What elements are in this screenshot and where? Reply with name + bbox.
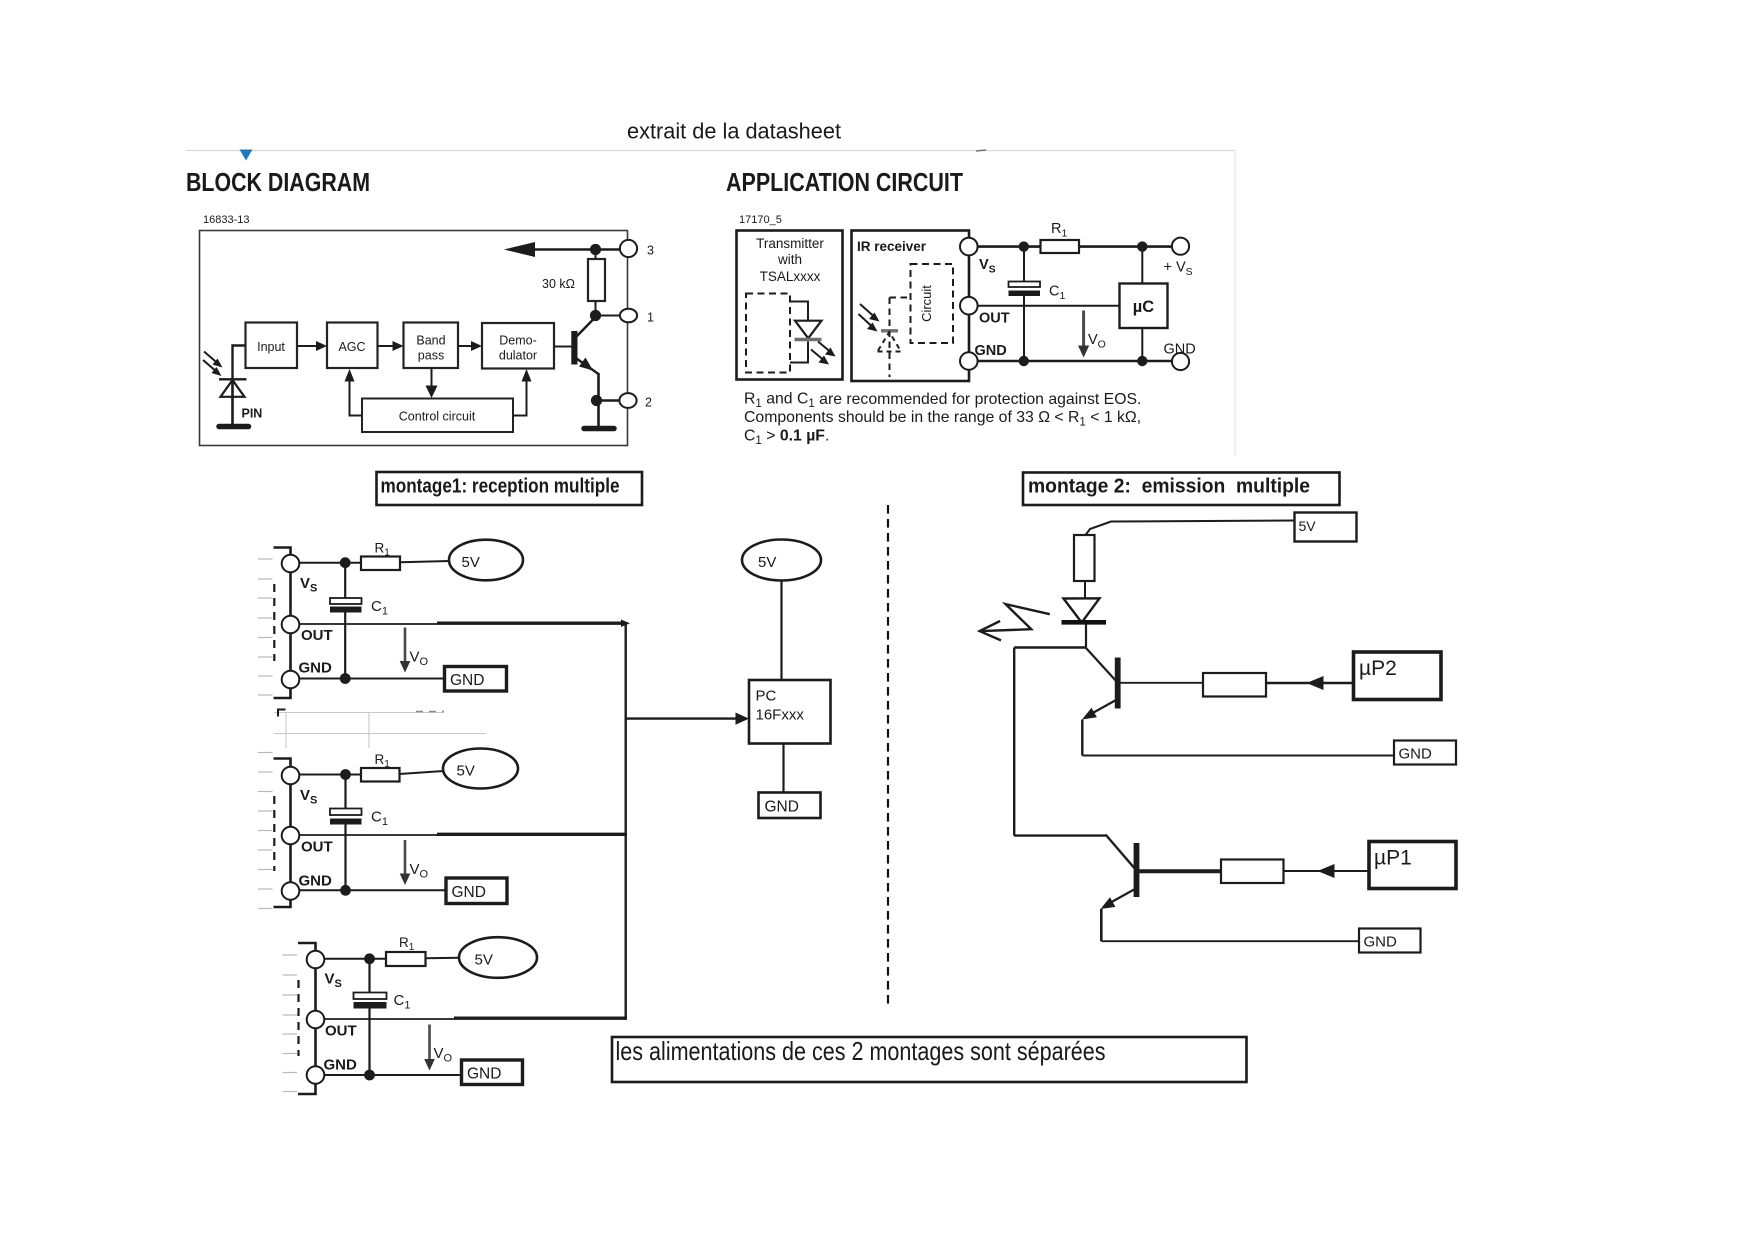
uP1 box [1369,842,1456,889]
C1 capacitor top plate [1009,282,1041,288]
module2 Vo arrow [404,840,407,876]
GND terminal right [1172,353,1189,370]
transmitter dashed internal box [746,294,790,373]
svg-text:Band: Band [416,334,445,348]
pin 1 terminal [620,309,637,323]
Q2 collector [1086,648,1117,682]
receiver dashed photodiode link [890,297,911,299]
ground under photodiode [219,424,249,430]
svg-text:montage 2: emission multiple: montage 2: emission multiple [1028,476,1310,498]
wire 5V to resistor [1086,521,1295,536]
svg-text:IR receiver: IR receiver [857,239,927,254]
module3 scan ruler ticks [283,955,298,1092]
control to demodulator wire [513,378,527,416]
scan residue corner mark [278,710,286,717]
light arrow 1 into photodiode [204,352,218,364]
module3 OUT wire thin [324,1018,455,1020]
wire LED to collector node [1085,625,1087,648]
receiver pin Vs [960,238,978,256]
pin 2 terminal [619,393,636,408]
wire PC to GND [782,744,784,793]
module2 wire R1 to 5V [400,771,444,774]
5V box (montage2) [1295,513,1357,542]
wire resistor top to node [595,250,597,260]
zigzag arrow barbs [980,621,1001,640]
module1 C1 bottom wire [344,613,346,679]
receiver dashed circuit box [911,264,954,343]
transistor base bar [571,331,577,365]
module1 Vo arrow [404,628,407,664]
C1 bottom wire [1023,296,1025,361]
PIN photodiode cathode bar [219,378,247,380]
Q1 base bar [1134,843,1140,897]
scan top edge [186,150,1235,152]
module2 C1 bottom wire [344,825,346,891]
Vs supply wire [978,245,1041,248]
scan residue between modules [274,713,486,749]
IR LED cathode bar [1062,620,1107,625]
module1 scan ruler ticks [258,559,273,695]
svg-text:OUT: OUT [301,839,333,856]
OUT wire to uC [978,305,1120,307]
junction dot GND/C1 [1019,356,1029,366]
junction dot pin2 node [591,395,602,406]
svg-text:with: with [777,252,802,267]
module3 junction dot Vs [364,953,375,964]
svg-text:GND: GND [324,1057,358,1074]
band pass to control wire [431,369,433,387]
module1 GND box [445,667,507,692]
Q2 emitter to GND wire [1082,755,1394,757]
svg-text:5V: 5V [475,952,493,969]
module3 OUT wire thick to bus [454,1017,627,1020]
GND box (Q2) [1394,741,1456,765]
svg-text:µP2: µP2 [1359,657,1397,680]
block diagram outer frame [200,231,628,446]
control to AGC feedback wire [350,378,363,416]
PIN photodiode triangle [221,380,245,397]
svg-text:GND: GND [975,343,1007,359]
module3 Vo arrow [428,1025,431,1062]
wire demodulator to transistor base [554,346,572,348]
GND box (Q1) [1359,929,1421,953]
module1 C1 top plate [330,598,362,604]
GND wire [978,360,1172,362]
Band pass block [404,323,459,369]
svg-text:5V: 5V [457,763,475,780]
svg-text:PC: PC [756,688,777,705]
svg-text:30 kΩ: 30 kΩ [542,277,575,291]
arrow Band pass to Demodulator [458,345,474,347]
svg-text:1: 1 [647,311,654,325]
module3 wire R1 to 5V [426,957,461,960]
light arrow 2 into photodiode [203,360,217,372]
wire 5V to PC [780,581,782,681]
module2 OUT wire thick to bus [437,833,627,836]
svg-text:les alimentations de ces 2 mon: les alimentations de ces 2 montages sont… [616,1036,1106,1066]
receiver dashed photodiode lead [889,298,891,378]
module1 pin OUT [282,616,300,634]
+Vs terminal [1172,238,1189,255]
module1 dashed edge [273,584,275,661]
svg-text:µC: µC [1133,298,1155,316]
module2 dashed edge [273,796,275,871]
module2 junction dot Vs [340,769,351,780]
svg-text:Input: Input [257,340,285,354]
module1 C1 top wire [344,563,346,598]
transmitter LED top wire [790,302,808,322]
transmitter LED emission arrow 1 [818,342,830,352]
collector node wire [1014,646,1086,648]
Q2 base wire [1121,682,1204,684]
receiver light arrow 1 [860,304,874,317]
module2 C1 top wire [344,775,346,809]
svg-text:AGC: AGC [338,340,365,354]
IR LED triangle [1064,598,1100,622]
module3 GND box [462,1060,523,1085]
module2 R1 resistor [361,768,400,782]
Q2 base bar [1115,658,1121,709]
R1 resistor [1041,240,1080,253]
svg-text:GND: GND [765,799,799,816]
svg-text:5V: 5V [462,554,480,571]
LED emission zigzag arrow [981,604,1050,631]
module1 receiver body bracket [274,548,291,699]
junction dot GND/uC [1137,356,1147,366]
PC GND box [759,793,821,819]
svg-text:GND: GND [299,660,333,677]
scan right edge [1234,150,1236,456]
module3 C1 top plate [354,993,387,1000]
Q2 emitter arrowhead [1082,708,1097,720]
Q1 emitter [1108,890,1134,905]
module3 R1 resistor [386,952,426,966]
internal ground bar [584,426,614,432]
transistor emitter [577,359,599,375]
Demodulator block [482,323,554,369]
transmitter LED cathode bar [795,338,822,342]
Q1 collector [1106,835,1137,871]
transistor collector [577,317,596,337]
svg-text:Control circuit: Control circuit [399,410,476,424]
module1 C1 bottom plate [330,607,362,613]
module3 pin Vs [307,951,325,969]
receiver light arrow 2 [859,314,873,327]
note box: separate supplies [612,1037,1247,1082]
junction dot Vs/C1 [1019,241,1029,251]
svg-text:GND: GND [450,672,484,689]
uC top wire [1141,247,1143,284]
module1 5V bubble [449,540,523,581]
svg-text:OUT: OUT [301,627,333,644]
svg-text:OUT: OUT [979,311,1010,327]
C1 top wire [1023,247,1025,282]
IR receiver box [852,231,970,382]
arrow toward base (uP1) [1318,864,1335,878]
arrow toward base (uP2) [1307,676,1324,690]
emitter arrowhead [579,358,593,371]
svg-text:16Fxxx: 16Fxxx [756,707,805,724]
svg-text:5V: 5V [1299,518,1317,534]
receiver pin OUT [960,297,978,315]
module3 GND wire [324,1074,462,1076]
wire node to pin 2 [597,399,620,401]
receiver photodiode bar [881,329,898,332]
transmitter LED bottom wire [790,342,808,363]
emitter lead down [597,373,600,427]
module1 R1 resistor [361,557,400,571]
module1 OUT wire thick to bus [437,622,626,625]
Input block [246,323,298,369]
wire resistor to LED [1084,581,1086,599]
module1 junction dot Vs [340,557,351,568]
Q1 base resistor [1221,860,1284,884]
module2 GND box [446,878,507,904]
module2 pin GND [282,882,300,900]
transmitter box [737,231,843,380]
module2 Vs wire [299,774,361,776]
svg-text:R1 and C1 are recommended for: R1 and C1 are recommended for protection… [744,391,1141,411]
module1 Vs wire [299,562,361,564]
output arrow to the left (pin 3 line) [532,248,620,250]
svg-text:GND: GND [452,884,486,901]
module2 pin OUT [282,827,300,845]
arrow AGC to Band pass [378,345,396,347]
svg-text:OUT: OUT [325,1023,357,1040]
scan residue dashes [416,711,444,713]
module3 C1 bottom wire [368,1009,370,1076]
junction dot pin1 node [590,310,601,321]
svg-text:GND: GND [1164,342,1196,358]
module2 OUT wire thin [300,834,439,836]
Q2 base resistor [1203,673,1266,697]
module3 receiver body bracket [298,943,316,1094]
wire resistor to uP2 [1266,682,1354,684]
module3 5V bubble [459,937,537,978]
svg-text:Circuit: Circuit [919,285,934,322]
transmitter LED emission arrow 2 [811,350,823,360]
wire resistor to uP1 [1284,870,1370,872]
PIN photodiode wire to Input [233,346,246,380]
module3 Vs wire [324,958,386,960]
module3 junction dot GND [364,1070,375,1081]
svg-text:pass: pass [418,349,444,363]
receiver pin GND [960,352,978,370]
module1 OUT wire thin [300,623,439,625]
svg-text:APPLICATION CIRCUIT: APPLICATION CIRCUIT [726,167,963,197]
AGC block [327,323,378,369]
uC bottom wire [1141,328,1143,361]
svg-text:17170_5: 17170_5 [739,214,782,226]
PC 16Fxxx box [749,680,831,744]
module1 junction dot GND [340,673,351,684]
Q1 emitter to GND wire [1101,940,1359,942]
OUT bus vertical [625,623,627,1019]
arrow Input to AGC [297,345,318,347]
svg-text:extrait de la datasheet: extrait de la datasheet [627,119,841,144]
Q2 emitter [1090,700,1116,715]
PC 5V bubble [742,540,821,581]
uC box [1120,284,1168,329]
svg-text:montage1: reception multiple: montage1: reception multiple [381,476,620,498]
dashed separator line [887,505,889,1009]
module3 C1 top wire [368,959,370,993]
scan small tick [976,150,986,151]
svg-text:5V: 5V [758,554,776,571]
blue marker triangle [240,150,253,161]
module2 junction dot GND [340,885,351,896]
PIN photodiode vertical lead [231,379,234,426]
svg-text:PIN: PIN [242,407,263,421]
montage1 label box [377,472,643,505]
Q1 base wire (thick) [1139,869,1221,873]
module2 GND wire [300,889,446,891]
wire node to pin 1 [596,315,621,317]
Vo arrow [1082,311,1085,349]
transmitter LED triangle [795,321,822,339]
svg-text:TSALxxxx: TSALxxxx [760,269,821,284]
module3 C1 bottom plate [354,1002,387,1009]
receiver dashed photodiode triangle [878,332,902,352]
junction dot R1/uC [1137,241,1147,251]
module2 C1 top plate [330,809,362,816]
bus arrow tip [621,620,630,628]
wire resistor bottom to node [595,301,597,316]
LED series resistor [1074,535,1095,581]
svg-text:dulator: dulator [499,349,537,363]
montage2 label box [1023,473,1340,506]
module2 receiver body bracket [274,759,291,908]
svg-text:16833-13: 16833-13 [203,214,250,226]
module1 GND wire [300,678,445,680]
junction dot pin3 node [590,244,601,255]
wire R1 to +Vs [1079,245,1172,248]
Q2 emitter lead down [1081,720,1083,756]
C1 capacitor bottom plate [1009,291,1041,297]
PC input wire with arrow [626,717,738,719]
pin 3 terminal [620,240,637,257]
svg-text:GND: GND [1399,746,1433,763]
module1 pin Vs [282,555,300,573]
branch wire down to Q1 [1013,648,1015,836]
Q1 emitter lead down [1100,909,1103,941]
module1 pin GND [282,671,300,689]
Q1 emitter arrowhead [1101,897,1116,909]
Q1 collector wire [1014,834,1105,836]
module3 dashed edge [297,980,299,1056]
Control circuit block [362,399,513,433]
svg-text:2: 2 [645,396,652,410]
svg-text:GND: GND [467,1066,501,1083]
module2 pin Vs [282,767,300,785]
svg-text:GND: GND [299,873,333,890]
module3 pin GND [307,1066,325,1084]
module1 wire R1 to 5V [400,561,450,562]
30k resistor [588,259,605,301]
svg-text:3: 3 [647,244,654,258]
svg-text:µP1: µP1 [1374,847,1412,870]
svg-text:Demo-: Demo- [499,334,537,348]
module2 scan ruler ticks [258,753,273,909]
module2 C1 bottom plate [330,819,362,825]
svg-text:Transmitter: Transmitter [756,236,824,251]
module2 5V bubble [443,749,518,789]
svg-text:BLOCK DIAGRAM: BLOCK DIAGRAM [186,167,370,197]
module3 pin OUT [307,1011,325,1029]
uP2 box [1354,652,1442,700]
svg-text:GND: GND [1364,934,1398,951]
